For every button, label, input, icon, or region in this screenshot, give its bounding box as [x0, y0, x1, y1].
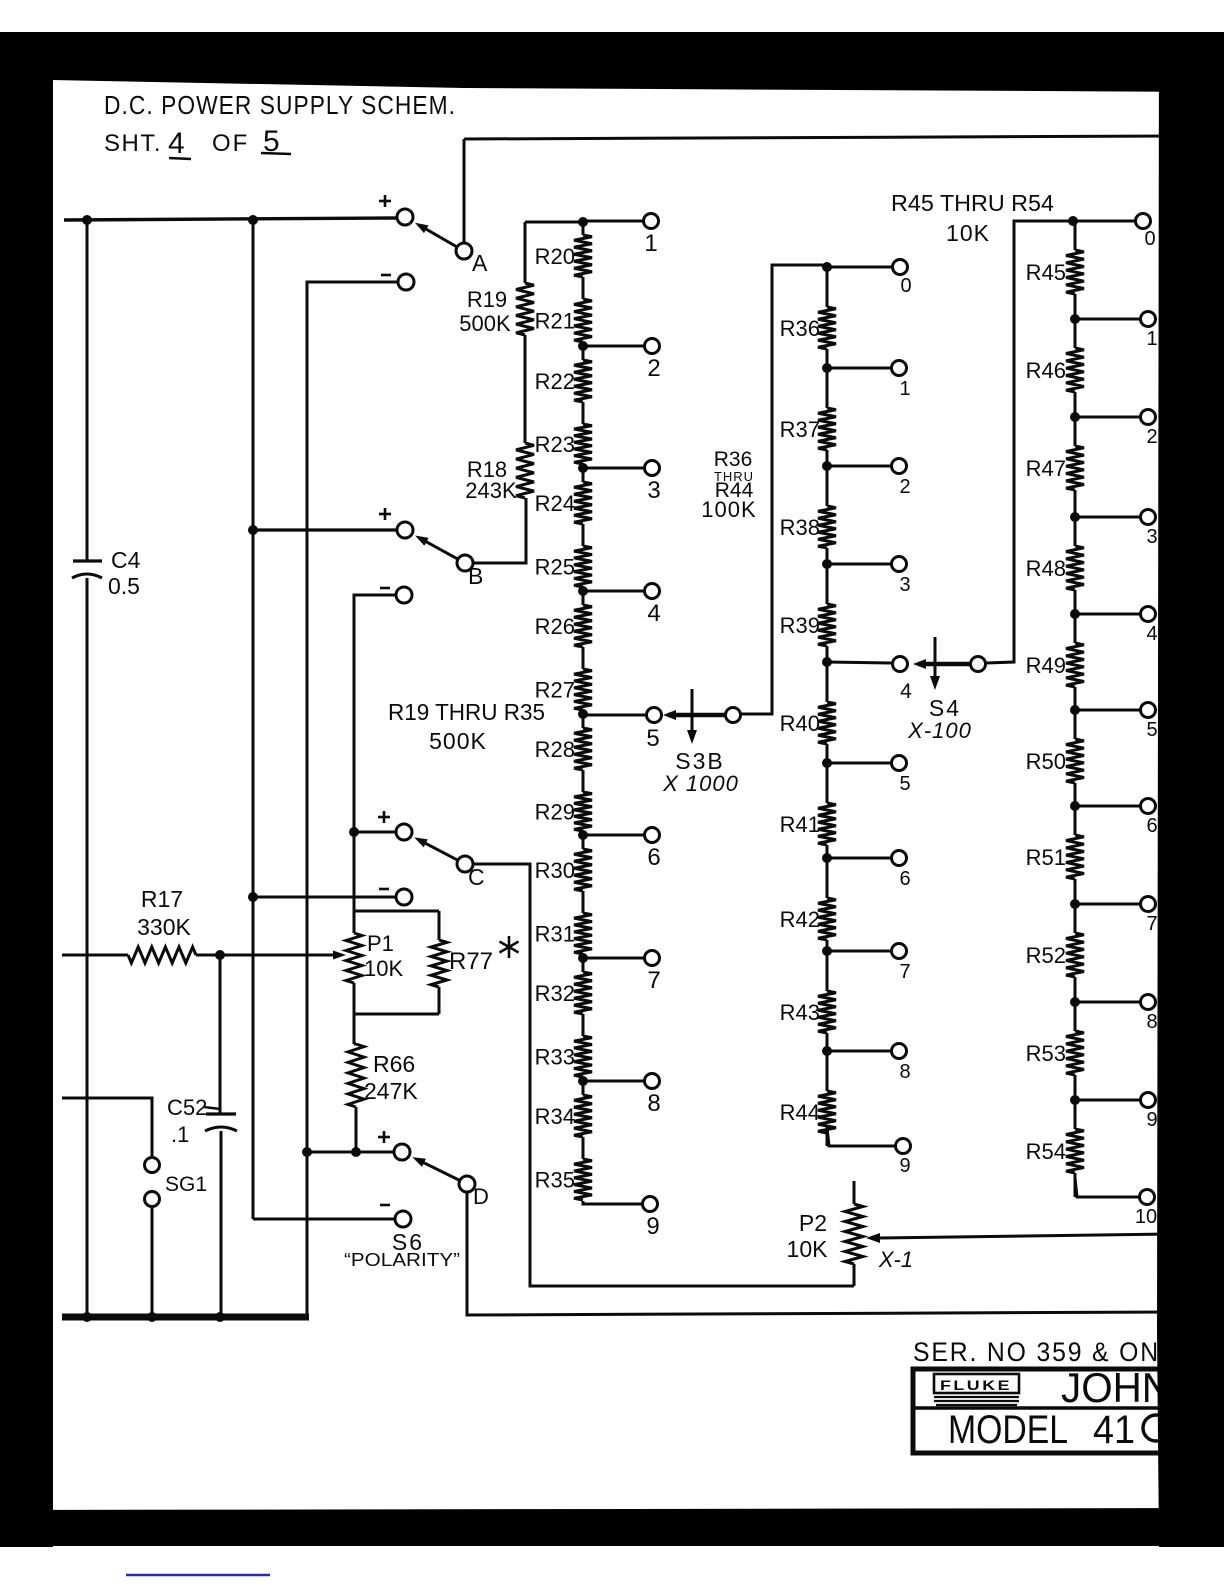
label R52	[1026, 943, 1066, 968]
label terminal 4 digit (left chain)	[647, 600, 660, 627]
label 247K	[364, 1078, 418, 1104]
node middle chain terminal 6	[822, 853, 832, 863]
resistor R48	[1066, 546, 1084, 590]
potentiometer P1 element	[346, 911, 362, 1014]
label terminal 9 digit	[646, 1213, 659, 1240]
wire middle chain tap 7	[827, 950, 891, 953]
terminal circle 3 (middle chain)	[892, 557, 907, 572]
svg-text:R39: R39	[780, 613, 820, 638]
wire segment above R37	[826, 368, 829, 408]
terminal circle 6 (middle chain)	[892, 851, 907, 866]
resistor R43	[818, 991, 836, 1033]
wire segment below R38	[826, 548, 829, 564]
terminal circle 7 (left chain)	[645, 951, 660, 966]
terminal circle 1 (right chain)	[1141, 312, 1156, 327]
label terminal 10 digit	[1135, 1206, 1157, 1228]
label R36 block	[714, 448, 753, 471]
svg-text:7: 7	[899, 961, 910, 983]
svg-text:R53: R53	[1026, 1041, 1066, 1066]
resistor R22	[574, 360, 592, 402]
S6 contact A minus circle	[398, 274, 414, 290]
wire segment above R41	[826, 763, 829, 803]
wire right chain bottom to terminal 10	[1075, 1178, 1139, 1197]
node x=307 y=1152	[302, 1147, 312, 1157]
wire middle chain tap 1	[827, 367, 891, 370]
wire segment above R26	[582, 591, 585, 605]
S6 pole A circle	[456, 243, 472, 259]
wire D plus feed	[307, 1150, 393, 1153]
svg-text:10K: 10K	[946, 220, 990, 246]
wire vertical x=87 upper (C4 branch)	[86, 220, 89, 561]
label R40	[780, 711, 820, 736]
svg-text:R45 THRU R54: R45 THRU R54	[891, 190, 1054, 216]
wire segment below R53	[1074, 1075, 1077, 1100]
label terminal 6 digit (middle)	[899, 868, 910, 890]
label R34	[535, 1104, 575, 1129]
terminal circle 7 (right chain)	[1141, 897, 1156, 912]
wire middle chain bottom to terminal 9	[827, 1127, 895, 1146]
svg-text:R51: R51	[1026, 845, 1066, 870]
terminal circle 10 (right chain)	[1140, 1190, 1155, 1205]
wire right chain tap 3	[1075, 516, 1140, 519]
label 10K (P1)	[364, 956, 403, 981]
resistor R17	[128, 947, 196, 963]
wire segment above R20	[582, 221, 585, 235]
resistor R52	[1066, 933, 1084, 977]
resistor R23	[574, 424, 592, 464]
resistor R18	[516, 443, 534, 498]
S6 contact B plus circle	[397, 522, 413, 538]
label terminal 9 digit (right chain)	[1146, 1109, 1157, 1131]
wire segment above R52	[1074, 904, 1077, 933]
wire segment below R51	[1074, 879, 1077, 904]
wire between R20 and R21	[582, 277, 585, 299]
resistor R30	[574, 849, 592, 891]
wire segment below R54	[1074, 1173, 1077, 1197]
label R26	[535, 614, 575, 639]
label R50	[1026, 749, 1066, 774]
svg-text:2: 2	[899, 476, 910, 498]
terminal circle 6 (left chain)	[645, 828, 660, 843]
svg-text:5: 5	[646, 725, 659, 752]
wire middle chain tap 6	[827, 857, 891, 860]
resistor R77	[431, 911, 447, 1014]
wire segment below R47	[1074, 490, 1077, 517]
S6 contact B minus circle	[396, 587, 412, 603]
wire S4 wiper to right chain top	[986, 221, 1069, 663]
label 500K (R19)	[459, 311, 511, 336]
resistor R36	[818, 307, 836, 349]
svg-text:4: 4	[168, 127, 185, 160]
svg-text:330K: 330K	[137, 914, 191, 940]
node middle chain terminal 4	[822, 657, 832, 667]
S4 wiper wire (heavy)	[918, 662, 971, 667]
node right chain top	[1068, 216, 1078, 226]
svg-text:X 1000: X 1000	[662, 771, 739, 796]
text SER. NO 359 & ON	[913, 1337, 1160, 1367]
label P2	[799, 1210, 827, 1236]
wire middle chain tap 8	[827, 1050, 891, 1053]
wire vertical x=307 (from A- down to bottom bus)	[307, 282, 398, 1317]
label R17	[141, 886, 183, 912]
wire R66 to D plus	[355, 1107, 358, 1152]
svg-text:R42: R42	[780, 907, 820, 932]
wire segment above R48	[1074, 517, 1077, 546]
wire segment above R39	[826, 564, 829, 604]
svg-text:R22: R22	[535, 369, 575, 394]
S6 contact D plus circle	[394, 1144, 410, 1160]
partial digit 0 (cut)	[1143, 1415, 1169, 1441]
svg-text:10K: 10K	[787, 1236, 829, 1262]
label terminal 8 digit (middle)	[899, 1061, 910, 1083]
resistor R41	[818, 803, 836, 845]
wire segment above R38	[826, 466, 829, 506]
terminal circle 7 (middle chain)	[892, 944, 907, 959]
label B	[468, 563, 483, 589]
wire node5 to circle	[583, 714, 646, 717]
resistor R39	[818, 604, 836, 646]
node left chain terminal 3	[578, 463, 588, 473]
resistor R54	[1066, 1129, 1084, 1173]
S4 selector arrow (vertical)	[930, 637, 940, 690]
node middle chain terminal 7	[822, 946, 832, 956]
wire segment below R39	[826, 646, 829, 662]
S6 blade C (arrow to +)	[414, 837, 457, 860]
label 500K (chain)	[429, 728, 487, 754]
wire P1 bottom to R66	[354, 1014, 356, 1044]
label 330K	[137, 914, 191, 940]
terminal circle 8 (middle chain)	[892, 1044, 907, 1059]
label 0.5	[108, 573, 140, 599]
label terminal 7 digit (right chain)	[1146, 913, 1157, 935]
wire middle chain tap 2	[827, 465, 891, 468]
node middle chain terminal 5	[822, 758, 832, 768]
label R35	[535, 1168, 575, 1193]
svg-text:0: 0	[1144, 228, 1155, 250]
capacitor C52 plates	[205, 1114, 237, 1131]
svg-text:JOHN: JOHN	[1061, 1364, 1171, 1411]
resistor R34	[574, 1095, 592, 1137]
wire C pole down to P2 bottom	[473, 864, 854, 1286]
svg-text:R29: R29	[535, 800, 575, 825]
svg-text:R21: R21	[535, 309, 575, 334]
svg-text:B: B	[468, 563, 483, 589]
svg-text:R30: R30	[535, 858, 575, 883]
title block outer box	[913, 1369, 1224, 1453]
label A	[472, 250, 488, 276]
svg-text:R41: R41	[780, 812, 820, 837]
node middle chain terminal 8	[822, 1046, 832, 1056]
label R42	[780, 907, 820, 932]
svg-text:5: 5	[899, 773, 910, 795]
wire right chain tap 1	[1075, 318, 1140, 321]
wire right chain tap 9	[1075, 1099, 1140, 1102]
label D	[473, 1184, 489, 1209]
svg-text:A: A	[472, 250, 488, 276]
wire segment above R36	[826, 267, 829, 307]
terminal circle 6 (right chain)	[1141, 799, 1156, 814]
S4 arrowhead into terminal 4	[913, 659, 926, 669]
svg-text:D.C. POWER SUPPLY SCHEM.: D.C. POWER SUPPLY SCHEM.	[104, 90, 456, 120]
svg-text:8: 8	[1146, 1011, 1157, 1033]
node x=253 y=897	[248, 892, 258, 902]
svg-text:P1: P1	[367, 931, 394, 956]
wire segment below R36	[826, 349, 829, 368]
wire segment below R52	[1074, 977, 1077, 1002]
svg-text:R36: R36	[714, 448, 753, 471]
plus sign at D	[378, 1131, 390, 1143]
svg-text:9: 9	[899, 1155, 910, 1177]
svg-text:P2: P2	[799, 1210, 827, 1236]
potentiometer P1 frame top	[354, 910, 439, 913]
svg-text:4: 4	[647, 600, 660, 627]
wire left chain tap 8	[583, 1080, 644, 1083]
resistor R28	[574, 728, 592, 770]
S6 blade A (arrow to +)	[415, 223, 457, 247]
label S3B	[675, 748, 724, 774]
wire right chain top to terminal 0	[1073, 220, 1137, 223]
svg-text:2: 2	[647, 355, 660, 382]
wire segment above R40	[826, 662, 829, 702]
resistor R37	[818, 408, 836, 450]
node right chain terminal 2	[1070, 412, 1080, 422]
wire node4 to circle	[827, 662, 892, 663]
resistor R19	[516, 283, 534, 335]
wire segment above R32	[582, 958, 585, 972]
wire right chain tap 4	[1075, 613, 1140, 616]
bus node x=152	[147, 1312, 157, 1322]
svg-text:1: 1	[899, 378, 910, 400]
node right chain terminal 1	[1070, 314, 1080, 324]
terminal circle 0 (middle chain)	[893, 260, 908, 275]
label R20	[535, 244, 575, 269]
wire segment above R45	[1074, 221, 1077, 250]
wire top-left horizontal (to S6 contact A+)	[64, 218, 397, 220]
svg-text:243K: 243K	[465, 478, 517, 503]
label X-1	[878, 1247, 913, 1272]
title text: D.C. POWER SUPPLY SCHEM.	[104, 90, 456, 120]
wire left chain tap 6	[583, 834, 644, 837]
svg-text:FLUKE: FLUKE	[940, 1377, 1012, 1393]
label R48	[1026, 556, 1066, 581]
svg-text:4: 4	[1146, 623, 1157, 645]
wire SG1 branch	[62, 1098, 152, 1158]
label R29	[535, 800, 575, 825]
wire segment below R45	[1074, 294, 1077, 319]
label terminal 2 digit (right chain)	[1146, 426, 1157, 448]
title block divider	[913, 1406, 1224, 1409]
S6 contact D minus circle	[395, 1211, 411, 1227]
wire segment above R47	[1074, 417, 1077, 446]
wire right chain tap 2	[1075, 416, 1140, 419]
label R23	[535, 432, 575, 457]
label terminal 6 digit (right chain)	[1146, 815, 1157, 837]
svg-text:247K: 247K	[364, 1078, 418, 1104]
node right chain terminal 6	[1070, 801, 1080, 811]
svg-text:C: C	[468, 864, 485, 890]
terminal circle 2 (right chain)	[1141, 410, 1156, 425]
capacitor C4 plates	[72, 561, 102, 578]
label R30	[535, 858, 575, 883]
wire segment below R48	[1074, 590, 1077, 614]
label THRU (middle)	[714, 469, 754, 484]
wire segment below R37	[826, 450, 829, 466]
label terminal 3 digit (left chain)	[647, 477, 660, 504]
svg-text:SHT.: SHT.	[104, 130, 162, 157]
label X-100	[907, 718, 972, 743]
potentiometer P2 bottom lead	[853, 1264, 856, 1286]
label R54	[1026, 1139, 1066, 1164]
S6 pole B circle	[457, 555, 473, 571]
node right chain terminal 4	[1070, 609, 1080, 619]
svg-text:R46: R46	[1026, 358, 1066, 383]
resistor R53	[1066, 1031, 1084, 1075]
wire right chain tap 6	[1075, 805, 1140, 808]
svg-text:9: 9	[646, 1213, 659, 1240]
label terminal 1 digit (right chain)	[1146, 328, 1157, 350]
wire top rail to right edge	[464, 136, 1170, 139]
svg-text:4: 4	[900, 680, 912, 703]
svg-text:R43: R43	[780, 1000, 820, 1025]
resistor R49	[1066, 643, 1084, 687]
svg-text:500K: 500K	[429, 728, 487, 754]
plus sign at C	[378, 811, 390, 823]
terminal circle 5 (right chain)	[1141, 703, 1156, 718]
label R33	[535, 1045, 575, 1070]
terminal circle 2 (middle chain)	[892, 459, 907, 474]
wire vertical x=220 lower (C52 to bus)	[220, 1131, 223, 1317]
svg-text:R34: R34	[535, 1104, 575, 1129]
svg-text:X-100: X-100	[907, 718, 972, 743]
terminal circle 9 (middle chain)	[896, 1139, 911, 1154]
node middle chain terminal 3	[822, 559, 832, 569]
resistor R66	[348, 1044, 364, 1107]
resistor R47	[1066, 446, 1084, 490]
svg-text:R44: R44	[780, 1100, 820, 1125]
S3B selector arrow (vertical)	[687, 689, 697, 744]
wire vertical x=87 lower (C4 to bus)	[86, 578, 89, 1317]
plus sign at B	[379, 508, 391, 520]
bus node x=87	[82, 1312, 92, 1322]
label R51	[1026, 845, 1066, 870]
label 10K (right chain)	[946, 220, 990, 246]
label terminal 5 digit	[646, 725, 659, 752]
label R18	[467, 457, 507, 482]
label S4	[929, 695, 961, 721]
resistor R24	[574, 482, 592, 524]
label SG1	[165, 1173, 207, 1196]
node on top-left wire x=253	[248, 215, 258, 225]
label 10K (P2)	[787, 1236, 829, 1262]
label terminal 3 digit (right chain)	[1146, 526, 1157, 548]
node left chain terminal 6	[578, 830, 588, 840]
wire between R30 and R31	[582, 891, 585, 913]
label R21	[535, 309, 575, 334]
wire segment above R50	[1074, 710, 1077, 739]
svg-text:6: 6	[899, 868, 910, 890]
label R32	[535, 981, 575, 1006]
wire left chain bottom to terminal 9	[583, 1201, 642, 1204]
label R25	[535, 555, 575, 580]
S6 blade D (arrow to +)	[412, 1157, 459, 1180]
wire segment below R50	[1074, 783, 1077, 806]
label terminal 0 digit (middle)	[900, 275, 911, 297]
label R22	[535, 369, 575, 394]
resistor R46	[1066, 348, 1084, 392]
label terminal 8 digit (left chain)	[647, 1090, 660, 1117]
wire between R24 and R25	[582, 524, 585, 546]
wire SG1 to bottom bus	[151, 1206, 154, 1317]
resistor R51	[1066, 835, 1084, 879]
label terminal 5 digit (middle)	[899, 773, 910, 795]
svg-text:R37: R37	[780, 417, 820, 442]
resistor R33	[574, 1036, 592, 1077]
P2 wiper wire (from right, arrow)	[866, 1233, 1170, 1243]
wire vertical x=220 upper (C52 branch)	[219, 955, 222, 1114]
resistor R31	[574, 913, 592, 954]
wire between R32 and R33	[582, 1014, 585, 1036]
wire between R34 and R35	[582, 1137, 585, 1159]
label R28	[535, 737, 575, 762]
svg-text:C52: C52	[167, 1095, 207, 1120]
wire D pole down and right to right edge	[467, 1192, 1170, 1315]
P1/R77 frame bottom	[354, 1013, 439, 1016]
wire segment above R51	[1074, 806, 1077, 835]
spark gap SG1 top circle	[145, 1158, 160, 1173]
label R45	[1026, 260, 1066, 285]
wire right chain tap 5	[1075, 709, 1140, 712]
terminal circle 3 (left chain)	[645, 461, 660, 476]
wire segment above R30	[582, 835, 585, 849]
wire left chain tap 7	[583, 957, 644, 960]
label R37	[780, 417, 820, 442]
wire segment below R49	[1074, 687, 1077, 710]
svg-text:5: 5	[1146, 719, 1157, 741]
svg-text:6: 6	[647, 844, 660, 871]
terminal circle 1 (left chain)	[644, 214, 659, 229]
terminal circle 0 (right chain)	[1136, 214, 1151, 229]
wire left chain tap 3	[583, 467, 644, 470]
label .1	[171, 1122, 189, 1147]
wire segment below R44	[826, 1133, 829, 1146]
svg-text:7: 7	[1146, 913, 1157, 935]
svg-text:10K: 10K	[364, 956, 403, 981]
label R44 block	[715, 479, 754, 502]
svg-text:MODEL: MODEL	[948, 1408, 1068, 1452]
label terminal 1 digit	[644, 230, 657, 257]
wire between R28 and R29	[582, 770, 585, 792]
label terminal 8 digit (right chain)	[1146, 1011, 1157, 1033]
minus sign at B	[380, 587, 390, 590]
wire segment below R42	[826, 940, 829, 951]
resistor R27	[574, 669, 592, 710]
label C52	[167, 1095, 220, 1120]
terminal circle 4 (middle chain)	[893, 657, 908, 672]
terminal circle 3 (right chain)	[1141, 510, 1156, 525]
wire segment above R54	[1074, 1100, 1077, 1129]
label POLARITY	[344, 1250, 460, 1270]
svg-text:C4: C4	[111, 547, 141, 573]
node right chain terminal 7	[1070, 899, 1080, 909]
terminal circle 4 (left chain)	[645, 584, 660, 599]
S6 pole C circle	[457, 856, 473, 872]
svg-text:R23: R23	[535, 432, 575, 457]
title text: SHT. 4 OF 5	[104, 125, 291, 160]
svg-text:1: 1	[644, 230, 657, 257]
wire C plus feed	[354, 830, 395, 833]
label terminal 7 digit (left chain)	[647, 967, 660, 994]
border bottom black bar	[0, 1508, 1224, 1546]
